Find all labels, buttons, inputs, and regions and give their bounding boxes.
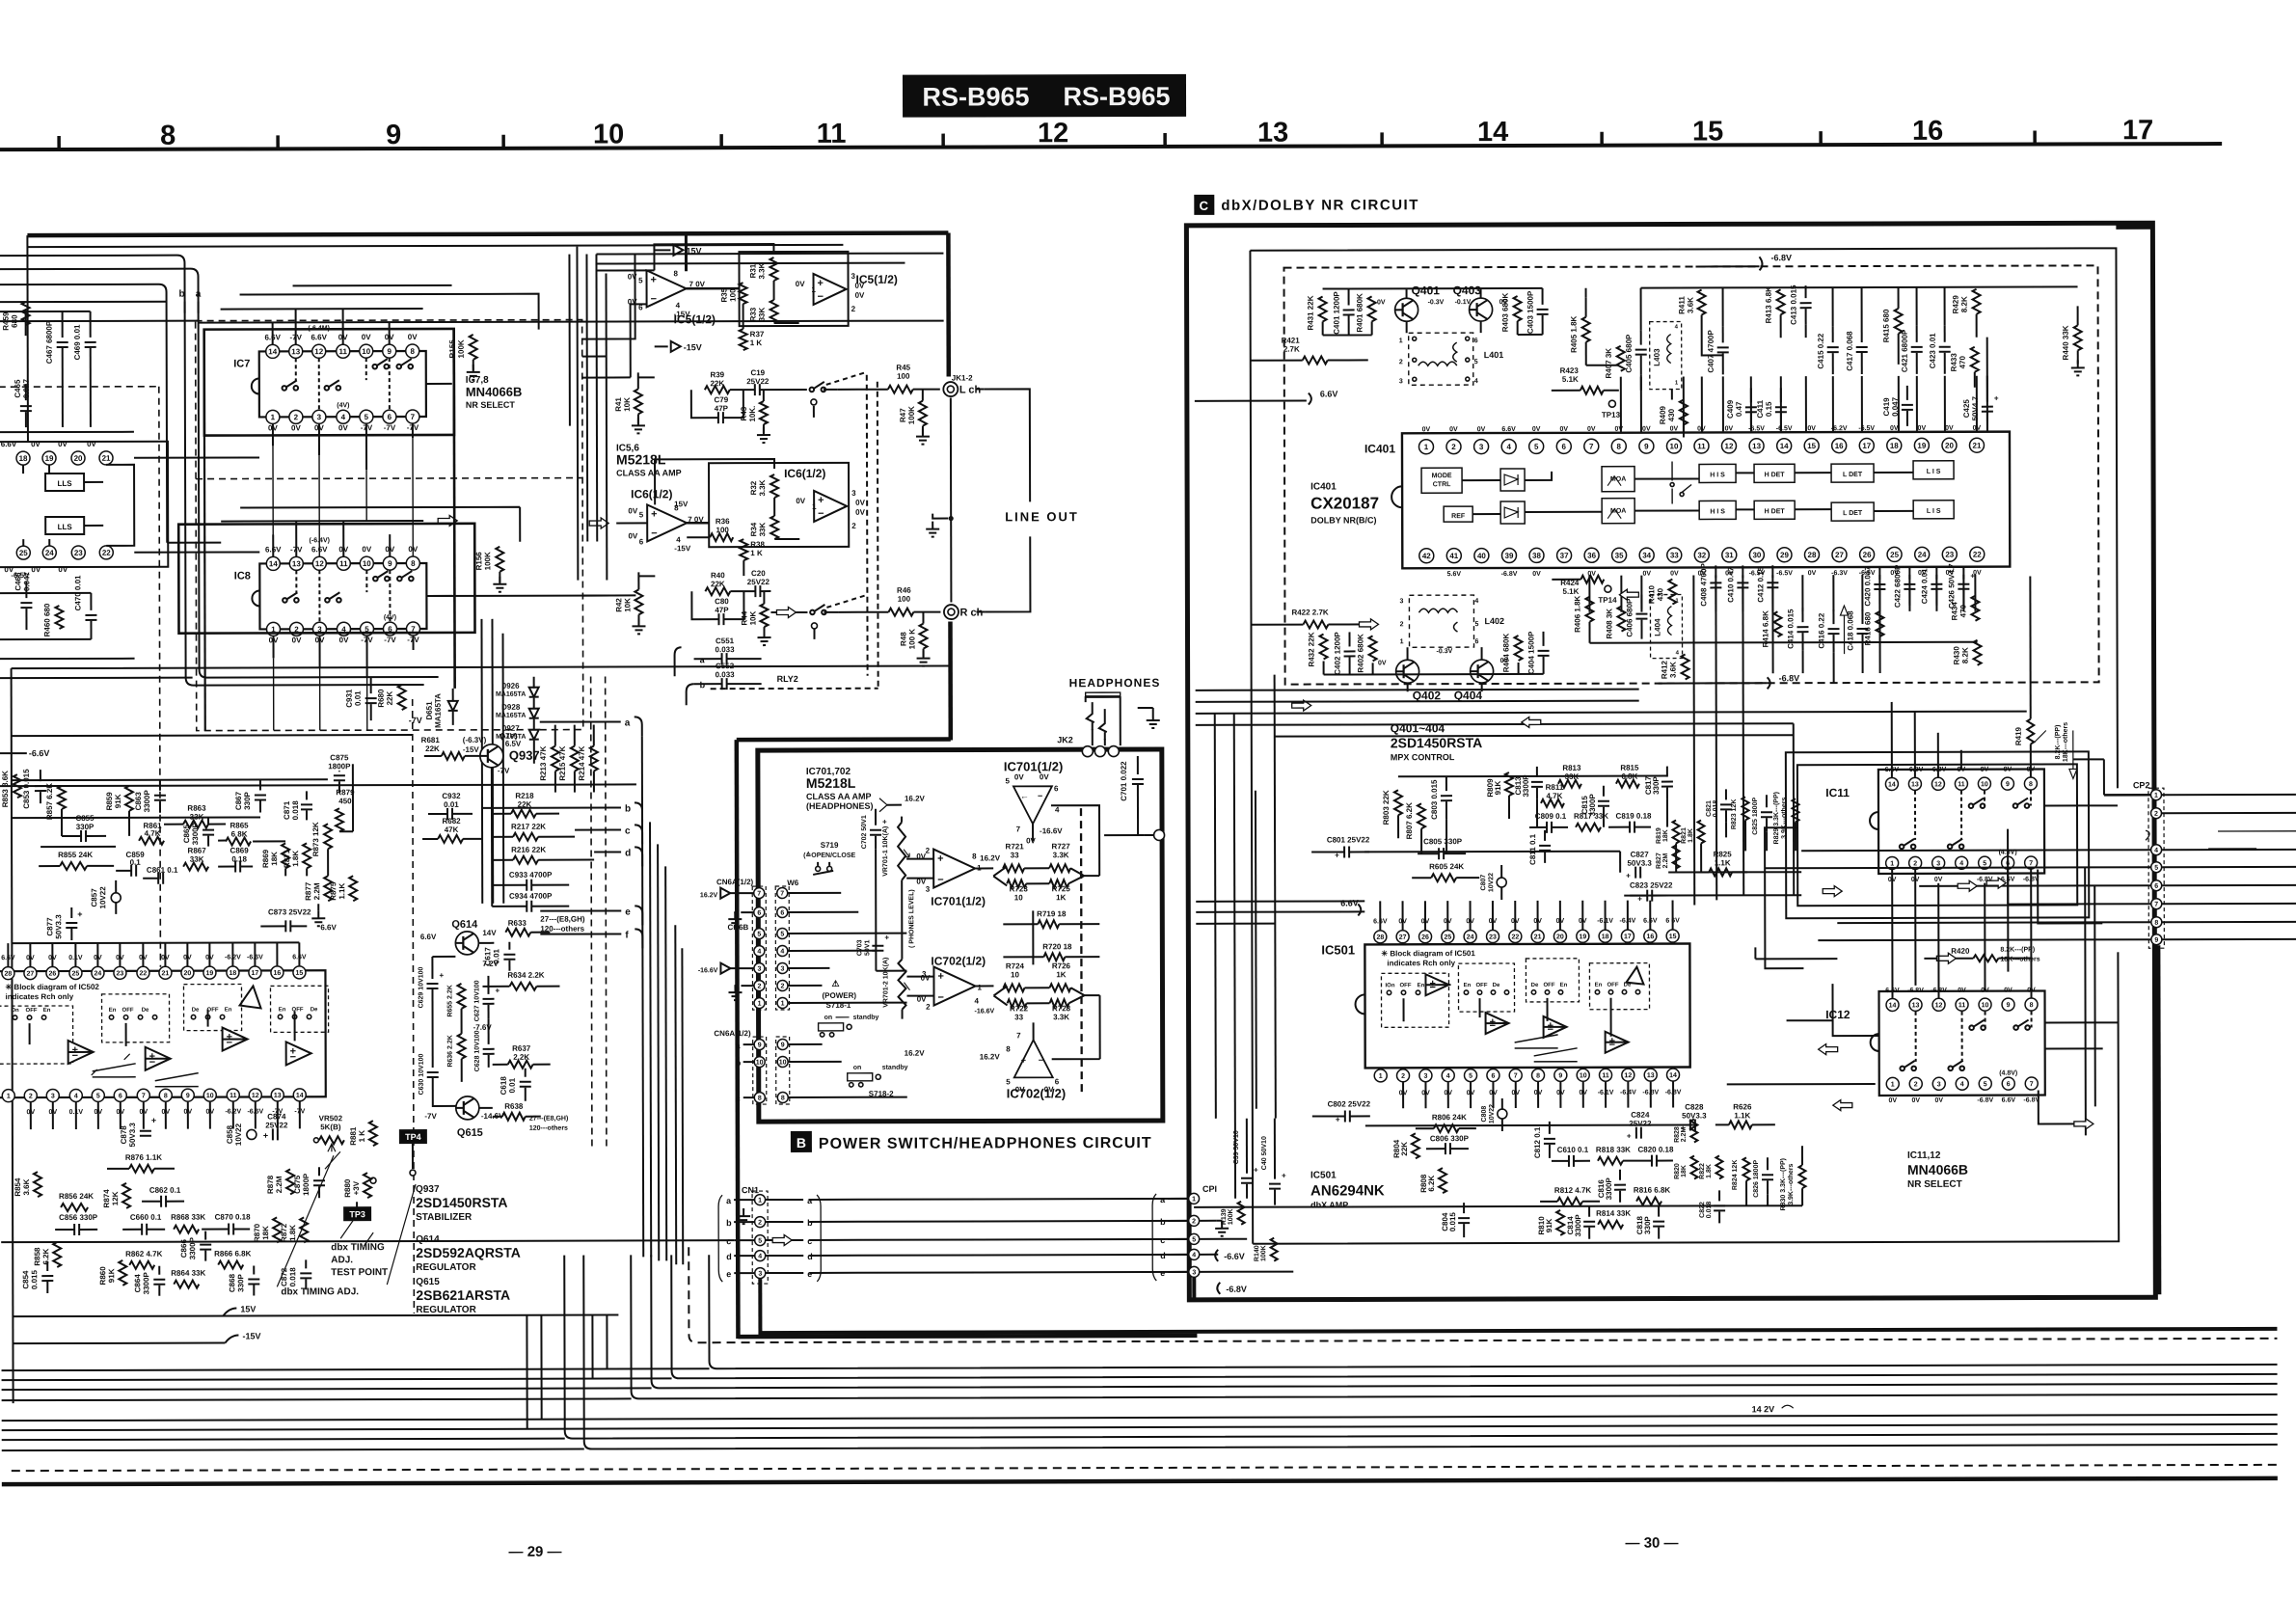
svg-text:4: 4 (2154, 848, 2158, 854)
svg-text:C627 10V100: C627 10V100 (473, 980, 480, 1021)
IC502 opamp 4 (286, 1042, 311, 1065)
svg-text:1: 1 (1400, 638, 1404, 645)
svg-text:7: 7 (1514, 1072, 1518, 1079)
svg-text:C932: C932 (442, 792, 461, 800)
svg-text:R806 24K: R806 24K (1432, 1113, 1467, 1122)
svg-text:8: 8 (1536, 1072, 1540, 1079)
wire loop IC11 left (1765, 827, 1803, 968)
svg-text:50V1: 50V1 (864, 939, 871, 955)
svg-text:MN4066B: MN4066B (1907, 1162, 1968, 1177)
svg-text:470: 470 (1958, 356, 1967, 369)
svg-text:TP4: TP4 (405, 1132, 421, 1142)
svg-text:-6.5V: -6.5V (1776, 425, 1793, 432)
svg-text:R870: R870 (253, 1223, 261, 1242)
svg-text:C812 0.1: C812 0.1 (1533, 1126, 1542, 1158)
block C inner border (1250, 248, 2119, 1243)
svg-text:18K---others: 18K---others (2063, 722, 2069, 762)
svg-text:5: 5 (1474, 621, 1478, 628)
svg-text:4: 4 (758, 1254, 762, 1260)
svg-text:2.2M: 2.2M (1662, 853, 1669, 869)
wire dolby encode drops (1621, 376, 1987, 432)
svg-text:2: 2 (29, 1094, 33, 1100)
svg-text:9: 9 (781, 1042, 785, 1049)
svg-text:100: 100 (729, 288, 738, 302)
svg-text:3: 3 (926, 885, 931, 894)
svg-text:1: 1 (812, 285, 817, 294)
svg-text:C873 25V22: C873 25V22 (268, 907, 311, 916)
IC12 bottom voltages (1889, 1097, 2040, 1104)
svg-text:0V: 0V (87, 440, 96, 448)
svg-text:3: 3 (1192, 1269, 1196, 1276)
svg-text:+: + (151, 1116, 156, 1125)
CN1 stub wires (734, 1200, 803, 1273)
svg-text:0V: 0V (58, 565, 68, 574)
IC8 top voltages (265, 545, 419, 554)
svg-text:3: 3 (851, 489, 856, 498)
svg-text:IC5(1/2): IC5(1/2) (856, 273, 898, 286)
svg-text:32: 32 (1697, 551, 1706, 559)
svg-text:0V: 0V (362, 333, 371, 341)
svg-text:R812 4.7K: R812 4.7K (1554, 1186, 1591, 1195)
svg-text:24: 24 (1918, 551, 1927, 559)
svg-text:C426 50V4.7: C426 50V4.7 (1947, 563, 1956, 609)
svg-text:4: 4 (74, 1093, 78, 1099)
dashed dbx right border (413, 699, 415, 1313)
svg-text:27---(E8,GH): 27---(E8,GH) (540, 915, 585, 924)
svg-text:-0.3V: -0.3V (1428, 299, 1445, 306)
svg-text:De: De (192, 1008, 200, 1014)
svg-text:C422 6800P: C422 6800P (1893, 564, 1902, 608)
signal arrow mpx out (1823, 886, 1842, 897)
transistor Q937 (480, 744, 503, 768)
svg-text:2: 2 (1451, 443, 1456, 451)
svg-text:C819 0.18: C819 0.18 (1616, 812, 1652, 821)
svg-text:R43: R43 (740, 406, 748, 420)
svg-text:C878: C878 (120, 1125, 128, 1145)
svg-text:6.5V: 6.5V (505, 740, 522, 748)
svg-text:0V: 0V (1889, 1097, 1898, 1104)
svg-text:W6: W6 (787, 879, 799, 887)
svg-text:C933 4700P: C933 4700P (509, 871, 553, 880)
svg-text:2.2M: 2.2M (312, 882, 321, 900)
IC502 dashed cell 2 (102, 994, 170, 1042)
svg-text:36: 36 (1587, 552, 1596, 560)
svg-text:10: 10 (1580, 1072, 1587, 1079)
IC11 dashed internals (1915, 791, 2031, 840)
svg-text:100K: 100K (457, 339, 466, 358)
svg-text:19: 19 (206, 970, 214, 977)
dbx block bottom border (13, 1314, 618, 1316)
svg-text:L403: L403 (1653, 348, 1661, 366)
svg-text:18: 18 (19, 454, 28, 463)
dashed box inner line (196, 478, 582, 479)
svg-text:0V: 0V (855, 508, 865, 517)
wire bus v1 (480, 619, 483, 904)
svg-text:0.015: 0.015 (30, 1270, 39, 1290)
svg-text:R818 33K: R818 33K (1596, 1146, 1631, 1154)
svg-text:Q614: Q614 (451, 919, 478, 931)
wire CP2 right stubs (2208, 831, 2296, 849)
dolby rail drops (1586, 287, 1987, 389)
grid ruler tick marks (59, 131, 2035, 149)
wire CN1-3 drop (758, 1279, 762, 1335)
svg-text:91K: 91K (114, 794, 122, 808)
connector CP2 pins (2150, 790, 2161, 800)
wire C bottom links (1194, 1180, 1802, 1207)
svg-text:1: 1 (758, 1198, 762, 1204)
svg-text:0V: 0V (1945, 425, 1954, 432)
svg-text:b: b (178, 289, 184, 300)
svg-text:+: + (1254, 1166, 1258, 1175)
svg-text:OFF: OFF (26, 1008, 38, 1014)
svg-text:C875: C875 (293, 1175, 302, 1194)
svg-text:+: + (1970, 572, 1975, 581)
IC7 pins 1-7 (266, 410, 419, 423)
svg-text:3.9K---others: 3.9K---others (1788, 1164, 1795, 1205)
svg-text:R855 24K: R855 24K (58, 851, 93, 859)
svg-text:on: on (824, 1015, 833, 1021)
bus dashed lower (12, 1465, 2278, 1471)
svg-text:2: 2 (926, 1003, 931, 1012)
svg-text:3.6K: 3.6K (1669, 662, 1678, 678)
svg-text:R681: R681 (421, 736, 441, 744)
bridge wires 702 (993, 986, 1099, 1005)
svg-text:←: ← (1020, 791, 1029, 800)
svg-text:1: 1 (7, 1094, 11, 1100)
connector CN1 pins (755, 1195, 766, 1205)
signal arrow CN1 c (772, 1234, 792, 1245)
svg-text:11: 11 (817, 119, 847, 149)
svg-text:−: − (818, 291, 824, 303)
svg-text:23: 23 (117, 970, 124, 977)
svg-text:-16.6V: -16.6V (698, 967, 718, 974)
svg-text:10: 10 (1981, 781, 1988, 788)
svg-text:1: 1 (977, 983, 982, 991)
IC12 pins 1-7 (1886, 1077, 2038, 1090)
svg-text:(4V): (4V) (337, 402, 349, 409)
headphone tip spring 2 (1099, 709, 1107, 745)
wire CP2 pin6 left (1919, 884, 2150, 887)
wire net d vertical (665, 866, 666, 1260)
svg-text:20: 20 (1945, 442, 1954, 450)
svg-text:91K: 91K (1494, 780, 1502, 795)
svg-text:18K: 18K (1681, 1165, 1688, 1177)
svg-text:-7V: -7V (384, 636, 396, 644)
svg-text:14: 14 (1669, 1072, 1677, 1079)
op-amp IC702 input half (933, 966, 975, 1005)
svg-text:1: 1 (812, 502, 817, 511)
svg-text:100K: 100K (907, 406, 916, 424)
svg-text:5: 5 (365, 413, 369, 421)
svg-text:8: 8 (411, 559, 416, 568)
svg-text:50V3.3: 50V3.3 (128, 1123, 137, 1148)
IC7 pins 14-8 (266, 344, 419, 358)
svg-text:41: 41 (1449, 552, 1458, 560)
svg-text:3: 3 (1399, 378, 1403, 385)
relay LLS lower (45, 517, 84, 534)
svg-text:50V3.3: 50V3.3 (1627, 859, 1652, 868)
IC8 switch d (397, 577, 402, 582)
svg-text:Q402: Q402 (1413, 689, 1442, 702)
svg-text:6: 6 (757, 910, 761, 917)
svg-text:120---others: 120---others (540, 925, 584, 934)
svg-text:R726: R726 (1052, 961, 1071, 970)
svg-text:6: 6 (2154, 883, 2158, 890)
svg-text:C703: C703 (856, 939, 863, 956)
svg-text:En: En (1418, 983, 1425, 988)
svg-text:JK1-2: JK1-2 (952, 373, 973, 382)
svg-text:C811 0.1: C811 0.1 (1528, 833, 1537, 865)
svg-text:C: C (1200, 199, 1209, 213)
svg-text:R816 6.8K: R816 6.8K (1634, 1186, 1670, 1195)
IC401 HIS box 1 (1699, 464, 1736, 482)
op-amp IC5 second half (814, 274, 847, 305)
svg-text:3: 3 (317, 413, 322, 421)
svg-text:50V3.3: 50V3.3 (1682, 1111, 1707, 1120)
svg-text:R877: R877 (304, 881, 312, 901)
svg-text:+: + (882, 818, 887, 826)
wire C rail top5 (1275, 735, 1794, 736)
svg-text:0V: 0V (628, 506, 637, 515)
svg-text:5: 5 (2154, 865, 2158, 872)
svg-text:C820 0.18: C820 0.18 (1637, 1146, 1673, 1154)
svg-text:NR SELECT: NR SELECT (1907, 1179, 1962, 1190)
svg-text:0926: 0926 (502, 682, 520, 690)
svg-text:0V: 0V (1642, 571, 1651, 578)
svg-text:22K: 22K (425, 744, 440, 753)
svg-text:6: 6 (388, 413, 392, 421)
svg-text:16: 16 (1646, 934, 1654, 940)
svg-text:14: 14 (1477, 117, 1508, 148)
signal arrow c3 (1819, 1044, 1838, 1055)
svg-text:10: 10 (206, 1093, 214, 1099)
svg-text:5: 5 (638, 276, 643, 284)
svg-text:6: 6 (639, 537, 644, 546)
svg-text:10: 10 (756, 1060, 764, 1067)
svg-text:R857 6.2K: R857 6.2K (45, 783, 54, 820)
svg-text:-6.3V: -6.3V (1831, 570, 1848, 577)
svg-text:R404 680K: R404 680K (1502, 634, 1511, 673)
svg-text:En: En (279, 1007, 286, 1013)
svg-text:25: 25 (1444, 934, 1451, 941)
svg-text:IC6(1/2): IC6(1/2) (784, 467, 825, 480)
IC11 bottom voltages (1888, 877, 2039, 883)
wire Q402 rails (1324, 647, 1544, 692)
transistor Q403 (1470, 298, 1493, 321)
svg-text:4: 4 (975, 996, 980, 1005)
svg-text:35: 35 (1615, 552, 1624, 560)
svg-text:M5218L: M5218L (806, 775, 856, 791)
IC401 bottom voltages (1447, 570, 1982, 578)
svg-text:R811: R811 (1546, 783, 1564, 792)
coil L404 (1650, 595, 1682, 659)
svg-text:21: 21 (1973, 442, 1982, 450)
CP1 ground pin2 (1221, 1221, 1223, 1229)
svg-text:5K(B): 5K(B) (320, 1123, 341, 1131)
svg-text:C420 0.047: C420 0.047 (1863, 566, 1872, 607)
bus line 6 (2, 1424, 2278, 1430)
IC401 internal wires (1462, 471, 1913, 514)
wire left lower rail (0, 592, 91, 594)
wire CP2 pin5 left (1765, 867, 2150, 868)
svg-text:C628 10V100: C628 10V100 (474, 1030, 481, 1071)
svg-text:6.6V: 6.6V (1320, 389, 1338, 398)
svg-text:Q615: Q615 (457, 1127, 483, 1139)
svg-text:DOLBY NR(B/C): DOLBY NR(B/C) (1310, 515, 1376, 525)
wire dbx top rail (12, 735, 413, 736)
svg-text:C826 1800P: C826 1800P (1753, 1160, 1760, 1198)
svg-text:C823 25V22: C823 25V22 (1630, 881, 1673, 890)
svg-text:0V: 0V (1918, 425, 1927, 432)
svg-text:C610 0.1: C610 0.1 (1557, 1146, 1589, 1154)
svg-text:-7V: -7V (498, 767, 510, 775)
svg-text:8: 8 (410, 347, 415, 356)
connector CN6A lower rows (754, 1039, 788, 1049)
svg-text:(4.8V): (4.8V) (1999, 1070, 2017, 1077)
svg-text:OFF: OFF (292, 1007, 304, 1013)
svg-text:0.01: 0.01 (444, 800, 459, 809)
svg-text:+: + (651, 274, 657, 285)
svg-text:R860: R860 (98, 1266, 107, 1286)
svg-text:C418 0.068: C418 0.068 (1846, 610, 1854, 651)
IC at left page edge (0, 442, 168, 568)
svg-text:6.2K: 6.2K (1427, 1176, 1436, 1192)
wire diode chain (533, 677, 535, 689)
wire IC501 pins down (1403, 1082, 1673, 1109)
svg-text:5: 5 (758, 1238, 762, 1245)
svg-text:0V: 0V (796, 280, 805, 288)
svg-text:10: 10 (779, 1060, 787, 1067)
svg-text:0.018: 0.018 (288, 1267, 297, 1287)
wire IC7 to IC8 links (273, 438, 413, 556)
svg-text:L401: L401 (1484, 350, 1504, 360)
svg-text:standby: standby (882, 1065, 908, 1071)
wire C rail top3 (1196, 701, 1639, 702)
svg-text:26: 26 (1421, 934, 1429, 941)
wire c CN1-CP1 (809, 1239, 1189, 1240)
svg-text:2: 2 (1399, 359, 1403, 365)
resistor R638 (502, 1113, 526, 1121)
block A top border (27, 233, 948, 236)
svg-text:De: De (1493, 983, 1500, 988)
svg-text:Q401: Q401 (1412, 284, 1441, 297)
svg-text:R432 22K: R432 22K (1308, 632, 1316, 666)
svg-text:12: 12 (1934, 781, 1942, 788)
signal arrow IC8 (438, 515, 457, 526)
coil L403 (1650, 322, 1682, 390)
svg-text:-6.8V: -6.8V (1977, 1097, 1993, 1104)
transistor Q615 (456, 1096, 479, 1120)
svg-text:IC5(1/2): IC5(1/2) (674, 312, 716, 326)
connector CN6 rows (754, 907, 788, 917)
svg-text:R819: R819 (1656, 827, 1662, 844)
svg-text:R33: R33 (749, 307, 758, 321)
svg-text:IC11: IC11 (1825, 786, 1850, 799)
svg-text:330P: 330P (236, 1273, 245, 1291)
svg-text:25V22: 25V22 (1629, 1120, 1652, 1128)
svg-text:2: 2 (781, 984, 785, 990)
svg-text:2: 2 (758, 984, 762, 990)
IC502 bottom voltages (27, 1108, 306, 1116)
svg-text:R ch: R ch (959, 607, 983, 618)
svg-text:0V: 0V (1026, 836, 1036, 845)
svg-text:15: 15 (1692, 116, 1723, 147)
IC11 outer route box (1797, 764, 2077, 906)
IC502 pins 1-14 (2, 1089, 306, 1102)
svg-text:10: 10 (1670, 442, 1679, 450)
svg-text:H DET: H DET (1765, 508, 1786, 515)
IC8 switch a (283, 598, 287, 603)
svg-text:R721: R721 (1006, 842, 1025, 851)
wire dolby-mpx link (1772, 604, 1879, 683)
svg-text:C416 0.22: C416 0.22 (1817, 612, 1825, 648)
block A left drop border (737, 740, 739, 1339)
svg-text:0V: 0V (1614, 426, 1623, 433)
wire b vertical (0, 255, 424, 686)
svg-text:C867: C867 (234, 791, 243, 810)
svg-text:R866 6.8K: R866 6.8K (214, 1249, 251, 1258)
svg-text:C827: C827 (1631, 851, 1650, 859)
svg-text:12: 12 (1624, 1072, 1632, 1079)
svg-text:R429: R429 (1952, 295, 1960, 314)
svg-text:+: + (651, 508, 657, 520)
svg-text:-7V: -7V (424, 1112, 437, 1121)
svg-text:3: 3 (757, 966, 761, 973)
svg-text:D928: D928 (501, 703, 521, 712)
wire jack column (950, 398, 953, 603)
svg-text:330P: 330P (1652, 776, 1661, 795)
svg-text:R807 6.2K: R807 6.2K (1405, 802, 1414, 839)
svg-text:H I S: H I S (1710, 508, 1725, 515)
svg-text:25V22: 25V22 (747, 578, 770, 586)
wire NR box left inner border (204, 330, 205, 731)
svg-text:R854: R854 (14, 1177, 22, 1197)
bus line 3 (651, 1251, 2277, 1389)
svg-text:MA165TA: MA165TA (496, 713, 526, 719)
block C tag (1194, 195, 1214, 215)
wire net b vertical (650, 822, 651, 1257)
svg-text:De: De (1531, 983, 1539, 988)
svg-text:c: c (1160, 1235, 1165, 1245)
svg-text:CN6A(1/2): CN6A(1/2) (716, 878, 754, 886)
svg-text:5: 5 (1005, 776, 1010, 785)
svg-text:0V: 0V (338, 423, 348, 432)
svg-text:R408 3K: R408 3K (1605, 609, 1613, 639)
wire CP2 pin4 left (1801, 849, 2150, 852)
bus line 1 (709, 1251, 2277, 1368)
svg-text:5: 5 (1192, 1236, 1196, 1243)
svg-text:C20: C20 (751, 569, 766, 578)
svg-text:IC501: IC501 (1310, 1170, 1337, 1180)
svg-text:25V22: 25V22 (746, 377, 770, 386)
svg-text:0V: 0V (1981, 767, 1989, 773)
wire C left vert 2 (1275, 675, 1276, 1119)
svg-text:3300P: 3300P (188, 1236, 197, 1259)
svg-text:C469 0.01: C469 0.01 (73, 324, 82, 360)
svg-text:-7V: -7V (384, 423, 396, 432)
wire top-left h1 (0, 301, 167, 303)
svg-text:42: 42 (1422, 552, 1431, 560)
IC502 switch row (13, 1015, 16, 1019)
svg-text:-15V: -15V (242, 1331, 260, 1340)
IC401 LIS box 1 (1913, 461, 1954, 479)
svg-text:7 0V: 7 0V (689, 280, 706, 288)
svg-text:7.2V: 7.2V (482, 960, 499, 968)
svg-text:−: − (1490, 1020, 1496, 1032)
signal arrow c2 (1522, 717, 1541, 727)
svg-text:22: 22 (1973, 551, 1982, 559)
svg-text:3.6K: 3.6K (1687, 297, 1695, 313)
